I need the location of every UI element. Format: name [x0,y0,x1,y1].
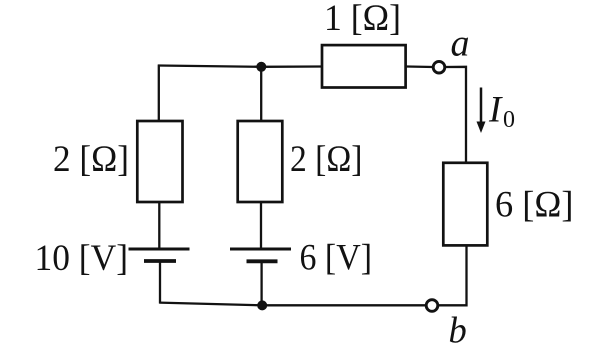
svg-text:2 [Ω]: 2 [Ω] [53,139,129,180]
svg-text:10 [V]: 10 [V] [35,238,129,279]
label 1 [ohm] [324,0,401,39]
resistor 2-ohm middle (box) [238,121,283,202]
terminal a (open circle) [433,61,445,73]
label 10 [V] [35,238,129,279]
current label I0 [488,89,515,133]
terminal b (open circle) [426,300,438,312]
label 2 [ohm] left [53,139,129,180]
wire middle battery to bottom [260,263,262,305]
wire bottom main segment [159,303,425,306]
wire left branch upper vertical [158,65,160,122]
node label b [449,309,467,350]
wire top left segment [158,66,322,67]
battery 6V long plate [230,248,291,251]
svg-text:1 [Ω]: 1 [Ω] [324,0,401,39]
resistor 1-ohm (box) [322,45,406,87]
wire middle branch upper vertical [260,67,262,121]
battery 10V long plate [129,248,190,251]
label 6 [ohm] [495,185,574,226]
svg-text:a: a [451,22,470,64]
junction dot top node [256,62,266,72]
svg-text:0: 0 [503,107,515,133]
junction dot bottom node [257,300,267,310]
svg-text:I: I [488,89,503,130]
label 6 [V] [300,237,373,278]
svg-text:2 [Ω]: 2 [Ω] [290,139,363,180]
wire middle resistor to battery [260,203,262,249]
resistor 6-ohm (box) [443,163,487,246]
wire left resistor to battery [158,203,160,249]
svg-text:6 [V]: 6 [V] [300,237,373,278]
node label a [451,22,470,64]
wire terminal a to right corner [445,67,466,162]
resistor 2-ohm left (box) [137,121,182,202]
wire left battery to bottom [159,263,161,304]
wire top right segment (box to terminal a) [407,65,434,68]
battery 10V short plate [144,259,176,263]
wire 6-ohm resistor to bottom corner [439,247,467,306]
label 2 [ohm] middle [290,139,363,180]
battery 6V short plate [247,259,278,263]
svg-text:b: b [449,309,467,350]
current arrow I0 [477,88,486,134]
svg-text:6 [Ω]: 6 [Ω] [495,185,574,226]
